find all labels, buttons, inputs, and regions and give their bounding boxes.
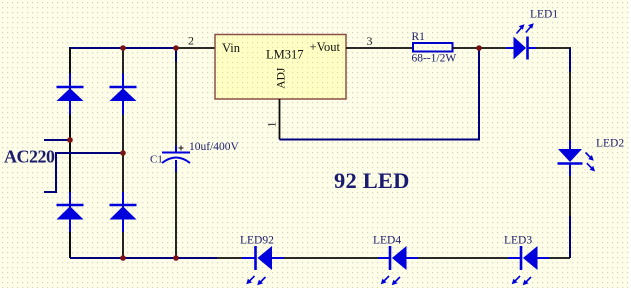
wire: LED3 to right rail [549, 257, 570, 259]
svg-text:R1: R1 [412, 31, 426, 43]
wire: LED92 to LED4 [284, 257, 378, 259]
svg-text:AC220: AC220 [4, 147, 55, 167]
wire: bottom rail black segment to LED92 [217, 257, 242, 259]
AC source stub upper [44, 139, 70, 141]
AC source stub lower [44, 153, 123, 192]
wire: right vertical rail below LED2 [569, 176, 571, 217]
svg-text:Vin: Vin [222, 41, 241, 55]
capacitor C1 [162, 146, 190, 173]
node: output / ADJ feedback [476, 45, 482, 51]
svg-text:10uf/400V: 10uf/400V [189, 141, 240, 153]
node: AC to second bridge leg [120, 150, 126, 156]
svg-text:3: 3 [367, 34, 373, 48]
wire: R1 to LED1 [453, 47, 507, 49]
diode D1 (bridge top-left) [57, 74, 84, 115]
LED92 [242, 246, 284, 285]
diode D4 (bridge bottom-right) [110, 192, 137, 232]
svg-text:92 LED: 92 LED [334, 168, 410, 193]
white margin right [629, 0, 631, 293]
wire: right vertical rail above LED2 [569, 72, 571, 141]
resistor R1 [413, 43, 453, 52]
node: AC to left bridge leg [67, 137, 73, 143]
wire: right vertical rail lower [569, 216, 571, 258]
svg-text:+Vout: +Vout [310, 40, 341, 54]
wire: bottom rail [70, 257, 217, 259]
node: top rail / second bridge leg [120, 45, 126, 51]
wire: top rail, C1 node to LM317 Vin pin [176, 47, 215, 49]
node: bottom rail / second bridge leg [120, 255, 126, 261]
wire: LM317 pin1 stub [279, 99, 281, 140]
svg-text:LED4: LED4 [373, 235, 401, 247]
node: bottom rail / C1 [173, 255, 179, 261]
LED3 [508, 246, 549, 285]
svg-text:68--1/2W: 68--1/2W [412, 53, 457, 65]
svg-text:LED1: LED1 [530, 9, 558, 21]
LED4 [378, 246, 418, 285]
wire: second bridge vertical [122, 48, 124, 258]
wire: right vertical rail upper [569, 48, 571, 72]
svg-text:LED3: LED3 [504, 235, 532, 247]
op-amp U1 LM317 regulator body [215, 35, 346, 100]
wire: LED1 to right rail [536, 47, 571, 49]
LED2 [558, 141, 596, 177]
wire: LM317 pin3 to R1 [346, 47, 413, 49]
diode D3 (bridge bottom-left) [57, 192, 84, 232]
wire: C1 vertical lower [175, 160, 177, 258]
svg-text:ADJ: ADJ [276, 67, 288, 89]
svg-text:2: 2 [188, 34, 194, 48]
node: top rail / C1 [173, 45, 179, 51]
wire: LED4 to LED3 [418, 257, 508, 259]
wire: top rail left (bridge top to C1 node) [70, 48, 176, 258]
diode D2 (bridge top-right) [110, 74, 137, 115]
svg-text:1: 1 [265, 122, 279, 128]
wire: C1 vertical upper navy [175, 48, 177, 62]
svg-text:LED92: LED92 [240, 235, 274, 247]
svg-text:LED2: LED2 [596, 138, 624, 150]
wire: left bridge vertical [69, 48, 71, 258]
svg-text:C1: C1 [150, 153, 163, 165]
LED1 [506, 23, 536, 59]
white margin bottom [0, 288, 631, 293]
svg-text:LM317: LM317 [266, 48, 304, 62]
wire: C1 vertical upper black [175, 62, 177, 146]
wire: ADJ feedback loop (pin1 to output node) [280, 48, 480, 140]
